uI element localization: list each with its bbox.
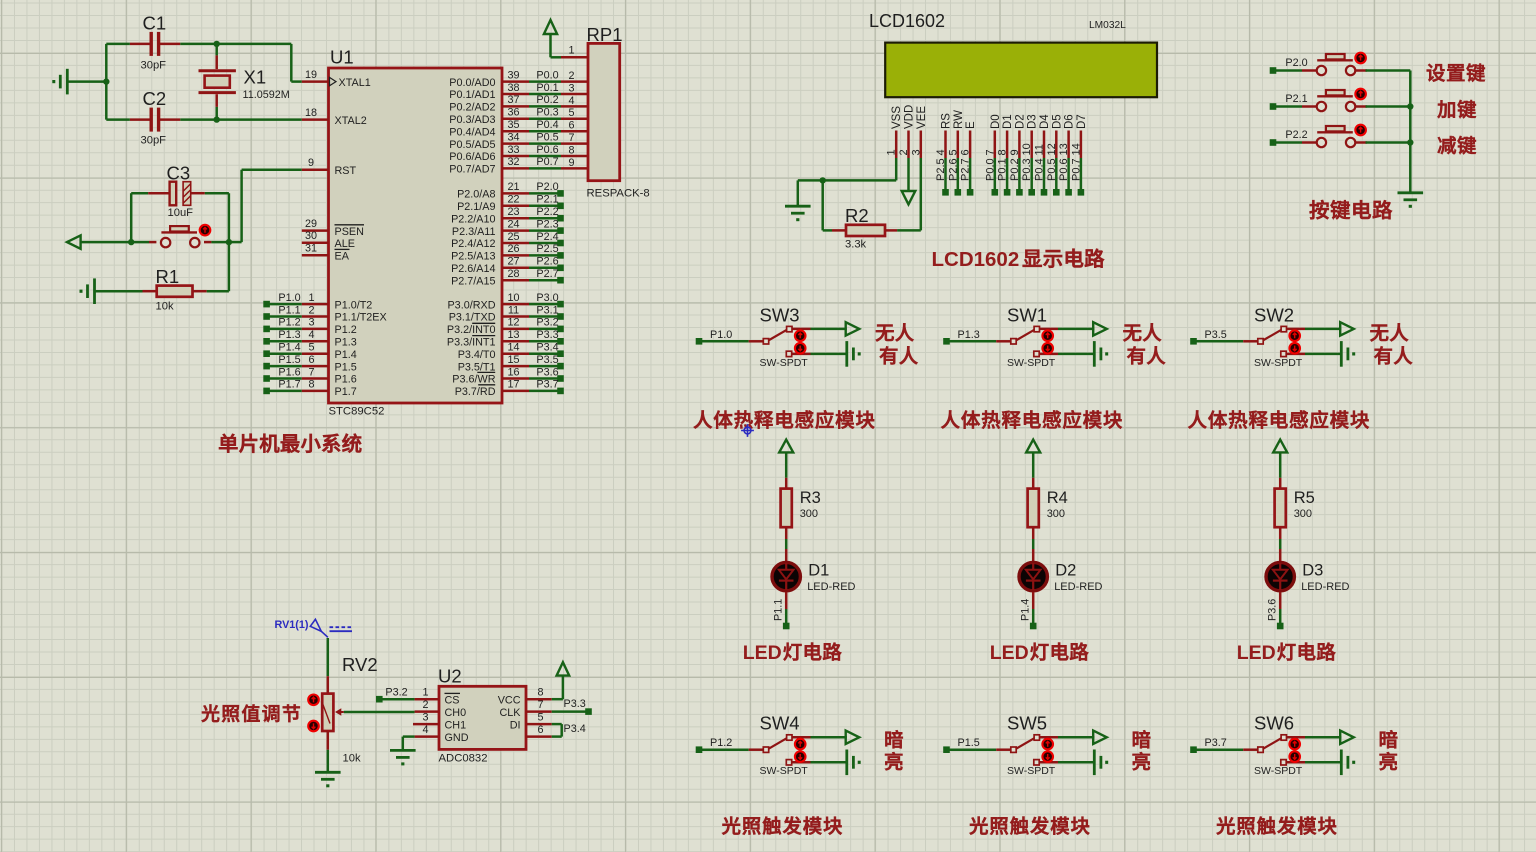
wire keypad bus bbox=[1409, 71, 1412, 192]
pin P1.2 (3) with terminal bbox=[263, 317, 356, 336]
svg-text:6: 6 bbox=[308, 354, 314, 366]
caption 人体热释电感应模块 bbox=[694, 410, 875, 429]
svg-text:29: 29 bbox=[305, 218, 317, 230]
svg-text:39: 39 bbox=[507, 69, 519, 81]
caption 加键 bbox=[1437, 100, 1475, 118]
node junction keypad row2 bbox=[1407, 103, 1413, 109]
svg-text:P2.2/A10: P2.2/A10 bbox=[451, 213, 495, 225]
svg-text:10: 10 bbox=[1021, 143, 1033, 155]
caption 亮 for SW4 bbox=[885, 752, 902, 770]
ground (rotated right) of SW5 bbox=[1094, 750, 1106, 776]
svg-text:D7: D7 bbox=[1076, 114, 1088, 129]
resistor R1 10k bbox=[95, 266, 229, 313]
svg-text:SW1: SW1 bbox=[1007, 304, 1047, 325]
LCD pin 13 D6 net P0.6 bbox=[1058, 114, 1076, 195]
svg-text:P2.0/A8: P2.0/A8 bbox=[457, 189, 495, 201]
svg-text:R3: R3 bbox=[800, 489, 821, 507]
svg-text:LCD1602: LCD1602 bbox=[869, 11, 945, 31]
pin RST (9) bbox=[302, 157, 357, 177]
pin P2.7 (pin 28) with terminal bbox=[502, 268, 564, 284]
svg-text:P0.1: P0.1 bbox=[997, 158, 1009, 181]
svg-text:P0.0: P0.0 bbox=[984, 158, 996, 181]
ground (rotated right) of SW3 bbox=[847, 341, 859, 367]
svg-text:SW-SPDT: SW-SPDT bbox=[1254, 357, 1303, 369]
pin P0.6 (pin 33) wire to RP1 pin 8 bbox=[502, 144, 588, 157]
svg-text:LED: LED bbox=[743, 642, 782, 664]
LCD pin 10 D3 net P0.3 bbox=[1021, 114, 1039, 195]
LED D1 LED-RED bbox=[772, 549, 856, 624]
svg-text:19: 19 bbox=[305, 69, 317, 81]
pin P2.4 (pin 25) with terminal bbox=[502, 231, 564, 247]
svg-text:SW-SPDT: SW-SPDT bbox=[760, 357, 809, 369]
svg-text:P2.6: P2.6 bbox=[536, 256, 558, 268]
svg-text:P0.1: P0.1 bbox=[536, 82, 558, 94]
ground below U2 GND bbox=[390, 750, 416, 764]
svg-text:P3.3: P3.3 bbox=[564, 698, 586, 710]
LED D3 LED-RED bbox=[1266, 549, 1350, 624]
pin P2.0 (pin 21) with terminal bbox=[502, 181, 564, 197]
LCD pin 1 VSS bbox=[886, 106, 904, 158]
svg-text:9: 9 bbox=[308, 157, 314, 169]
svg-text:XTAL1: XTAL1 bbox=[339, 77, 371, 89]
pin P3.2 (pin 12) with terminal bbox=[502, 317, 564, 333]
svg-text:C2: C2 bbox=[143, 88, 167, 109]
svg-text:10k: 10k bbox=[156, 301, 174, 313]
caption 有人 for SW3 bbox=[880, 346, 918, 364]
svg-text:P0.2: P0.2 bbox=[1009, 158, 1021, 181]
svg-text:RS: RS bbox=[941, 113, 953, 129]
arrow terminal 暗 output of SW5 bbox=[1093, 731, 1107, 744]
wire C3 left down to reset row bbox=[130, 193, 133, 242]
svg-text:P1.0/T2: P1.0/T2 bbox=[335, 299, 373, 311]
svg-text:D4: D4 bbox=[1039, 114, 1051, 129]
svg-text:P0.4: P0.4 bbox=[1034, 158, 1046, 181]
pin P0.4 (pin 35) wire to RP1 pin 6 bbox=[502, 119, 588, 132]
wire label RV1(1) blue terminal bbox=[275, 619, 353, 637]
svg-text:ADC0832: ADC0832 bbox=[439, 753, 488, 765]
svg-text:P1.1: P1.1 bbox=[278, 304, 300, 316]
pin P3.1 (pin 11) with terminal bbox=[502, 304, 564, 320]
svg-text:P3.7/RD: P3.7/RD bbox=[455, 386, 496, 398]
caption 暗 for SW5 bbox=[1133, 730, 1150, 748]
svg-text:XTAL2: XTAL2 bbox=[335, 115, 367, 127]
svg-text:RST: RST bbox=[335, 165, 357, 177]
caption 光照触发模块 bbox=[1217, 816, 1337, 834]
pin P2.6 (pin 27) with terminal bbox=[502, 256, 564, 272]
svg-text:P2.0: P2.0 bbox=[1285, 57, 1307, 69]
pin P1.1 (2) with terminal bbox=[263, 304, 386, 323]
svg-text:24: 24 bbox=[507, 218, 519, 230]
arrow terminal 无人 output of SW3 bbox=[846, 322, 860, 335]
caption 无人 for SW3 bbox=[876, 323, 914, 341]
svg-text:10uF: 10uF bbox=[168, 207, 194, 219]
svg-text:P0.3: P0.3 bbox=[536, 107, 558, 119]
svg-text:CLK: CLK bbox=[499, 707, 521, 719]
svg-text:3: 3 bbox=[910, 149, 922, 155]
pin P0.5 (pin 34) wire to RP1 pin 7 bbox=[502, 131, 588, 144]
svg-text:SW3: SW3 bbox=[760, 304, 800, 325]
svg-text:11: 11 bbox=[1034, 144, 1046, 155]
svg-text:P2.1/A9: P2.1/A9 bbox=[457, 201, 495, 213]
svg-text:LED: LED bbox=[990, 642, 1029, 664]
svg-text:D3: D3 bbox=[1027, 114, 1039, 129]
resistor R5 300 bbox=[1275, 478, 1315, 539]
svg-text:8: 8 bbox=[568, 144, 574, 156]
wire R3 to D1 bbox=[785, 539, 788, 549]
pin XTAL2 (18) bbox=[302, 107, 367, 127]
svg-text:P3.2: P3.2 bbox=[536, 317, 558, 329]
svg-text:SW-SPDT: SW-SPDT bbox=[1007, 765, 1056, 777]
svg-text:P2.0: P2.0 bbox=[536, 181, 558, 193]
svg-text:25: 25 bbox=[507, 231, 519, 243]
LCD pin 4 RS net P2.5 bbox=[935, 113, 953, 196]
svg-text:P2.2: P2.2 bbox=[1285, 129, 1307, 141]
svg-text:8: 8 bbox=[537, 687, 543, 699]
svg-text:P0.2/AD2: P0.2/AD2 bbox=[449, 102, 495, 114]
svg-text:P3.0: P3.0 bbox=[536, 292, 558, 304]
potentiometer RV2 10k bbox=[308, 654, 377, 765]
svg-text:LM032L: LM032L bbox=[1089, 20, 1126, 31]
svg-text:P2.7: P2.7 bbox=[960, 158, 972, 181]
pin ALE (30) bbox=[302, 230, 355, 250]
svg-text:P1.4: P1.4 bbox=[1020, 599, 1032, 621]
arrow terminal 暗 output of SW4 bbox=[846, 731, 860, 744]
ground (rotated right) of SW6 bbox=[1341, 750, 1353, 776]
svg-text:P1.1: P1.1 bbox=[773, 599, 785, 621]
svg-text:37: 37 bbox=[507, 94, 519, 106]
svg-text:ALE: ALE bbox=[335, 238, 355, 250]
svg-text:P0.2: P0.2 bbox=[536, 94, 558, 106]
pin U2 CS (1) net P3.2 bbox=[376, 687, 460, 707]
svg-text:P0.6: P0.6 bbox=[536, 144, 558, 156]
pin P2.2 (pin 23) with terminal bbox=[502, 206, 564, 222]
svg-text:1: 1 bbox=[308, 292, 314, 304]
svg-text:LED-RED: LED-RED bbox=[807, 581, 855, 593]
pin P1.5 (6) with terminal bbox=[263, 354, 356, 373]
svg-text:10k: 10k bbox=[343, 753, 361, 765]
svg-text:LCD1602: LCD1602 bbox=[932, 248, 1020, 271]
caption 单片机最小系统 bbox=[219, 434, 361, 453]
node junction C1 / X1 top bbox=[214, 41, 220, 47]
wire LCD VSS to ground rail bbox=[798, 158, 896, 180]
svg-text:RV2: RV2 bbox=[342, 654, 378, 675]
pin P1.7 (8) with terminal bbox=[263, 379, 356, 398]
svg-text:7: 7 bbox=[568, 132, 574, 144]
svg-text:P1.5: P1.5 bbox=[278, 354, 300, 366]
caption 光照值调节 bbox=[202, 704, 300, 722]
caption 按键电路 bbox=[1310, 200, 1393, 219]
svg-text:3: 3 bbox=[568, 82, 574, 94]
svg-text:DI: DI bbox=[510, 719, 521, 731]
node junction C2 / X1 bottom bbox=[214, 116, 220, 122]
ground (rotated left) for crystal caps bbox=[54, 69, 68, 95]
ground (rotated right) of SW4 bbox=[847, 750, 859, 776]
LCD pin 2 VDD bbox=[898, 105, 916, 158]
svg-text:P0.7: P0.7 bbox=[1070, 158, 1082, 181]
svg-text:P3.6: P3.6 bbox=[1267, 599, 1279, 621]
pin P0.7 (pin 32) wire to RP1 pin 9 bbox=[502, 156, 588, 169]
push button P2.2 bbox=[1270, 125, 1411, 148]
arrow terminal 无人 output of SW2 bbox=[1340, 322, 1354, 335]
pin P0.0 (pin 39) wire to RP1 pin 2 bbox=[502, 69, 588, 82]
svg-text:P1.5: P1.5 bbox=[335, 361, 357, 373]
svg-text:P3.6/WR: P3.6/WR bbox=[452, 374, 495, 386]
power arrow above R5 bbox=[1273, 440, 1287, 478]
svg-text:3.3k: 3.3k bbox=[845, 239, 867, 251]
pin P2.1 (pin 22) with terminal bbox=[502, 194, 564, 210]
wire C1 to XTAL1 bbox=[217, 44, 302, 82]
arrow terminal 无人 output of SW1 bbox=[1093, 322, 1107, 335]
caption 人体热释电感应模块 bbox=[941, 410, 1122, 429]
svg-text:P2.2: P2.2 bbox=[536, 206, 558, 218]
svg-text:P0.4/AD4: P0.4/AD4 bbox=[449, 126, 495, 138]
svg-text:RW: RW bbox=[953, 110, 965, 129]
svg-text:P3.2: P3.2 bbox=[385, 687, 407, 699]
U1 right pin names bbox=[447, 77, 496, 398]
pin P3.7 (pin 17) with terminal bbox=[502, 379, 564, 395]
svg-text:P3.4: P3.4 bbox=[536, 342, 558, 354]
svg-text:VDD: VDD bbox=[904, 105, 916, 129]
svg-text:28: 28 bbox=[507, 268, 519, 280]
svg-text:4: 4 bbox=[935, 149, 947, 155]
caption 亮 for SW5 bbox=[1133, 752, 1150, 770]
svg-text:P1.6: P1.6 bbox=[335, 374, 357, 386]
svg-text:D6: D6 bbox=[1064, 114, 1076, 129]
LED D2 LED-RED bbox=[1019, 549, 1103, 624]
resistor R4 300 bbox=[1028, 478, 1068, 539]
svg-text:P1.2: P1.2 bbox=[710, 737, 732, 749]
pin P2.5 (pin 26) with terminal bbox=[502, 243, 564, 259]
resistor R3 300 bbox=[781, 478, 821, 539]
caption 减键 bbox=[1438, 136, 1476, 154]
resistor R2 3.3k bbox=[823, 205, 897, 251]
svg-text:P1.7: P1.7 bbox=[278, 379, 300, 391]
svg-text:8: 8 bbox=[308, 379, 314, 391]
wire C2 to XTAL2 bbox=[217, 118, 302, 121]
pin P0.1 (pin 38) wire to RP1 pin 3 bbox=[502, 82, 588, 95]
LCD pin 6 E net P2.7 bbox=[960, 121, 978, 196]
pin P3.6 (pin 16) with terminal bbox=[502, 366, 564, 382]
svg-text:P3.1: P3.1 bbox=[536, 304, 558, 316]
svg-text:GND: GND bbox=[445, 732, 469, 744]
wire R4 to D2 bbox=[1032, 539, 1035, 549]
svg-text:9: 9 bbox=[1009, 149, 1021, 155]
svg-text:D2: D2 bbox=[1055, 562, 1076, 580]
terminal P1.4 below D2 bbox=[1020, 599, 1037, 630]
svg-text:3: 3 bbox=[308, 317, 314, 329]
svg-text:P0.6/AD6: P0.6/AD6 bbox=[449, 151, 495, 163]
svg-text:P3.3: P3.3 bbox=[536, 329, 558, 341]
LCD pin 9 D2 net P0.2 bbox=[1009, 114, 1027, 195]
svg-text:P3.3/INT1: P3.3/INT1 bbox=[447, 337, 496, 349]
LCD pin 11 D4 net P0.4 bbox=[1034, 114, 1052, 196]
svg-text:12: 12 bbox=[1046, 143, 1058, 155]
pin P0.2 (pin 37) wire to RP1 pin 4 bbox=[502, 94, 588, 107]
caption 有人 for SW2 bbox=[1374, 346, 1412, 364]
svg-text:35: 35 bbox=[507, 119, 519, 131]
svg-text:P3.2/INT0: P3.2/INT0 bbox=[447, 324, 496, 336]
LCD pin 14 D7 net P0.7 bbox=[1070, 114, 1088, 195]
node junction left of caps bbox=[103, 78, 109, 84]
svg-text:21: 21 bbox=[507, 181, 519, 193]
svg-text:P2.1: P2.1 bbox=[536, 194, 558, 206]
svg-text:P0.0/AD0: P0.0/AD0 bbox=[449, 77, 495, 89]
power arrow above RP1 bbox=[544, 20, 561, 57]
svg-text:P3.4/T0: P3.4/T0 bbox=[458, 349, 496, 361]
switch SW6 SW-SPDT net P3.7 bbox=[1190, 713, 1341, 778]
svg-text:14: 14 bbox=[1070, 143, 1082, 155]
display LCD1602 LM032L bbox=[869, 11, 1157, 97]
svg-text:P1.4: P1.4 bbox=[278, 342, 300, 354]
svg-text:SW6: SW6 bbox=[1254, 713, 1294, 734]
pin XTAL1 (19) bbox=[302, 69, 371, 89]
svg-text:P3.5: P3.5 bbox=[536, 354, 558, 366]
svg-text:P2.1: P2.1 bbox=[1285, 93, 1307, 105]
adc U2 ADC0832 body bbox=[438, 666, 526, 765]
node junction reset left bbox=[128, 239, 134, 245]
switch SW1 SW-SPDT net P1.3 bbox=[943, 304, 1094, 369]
pin EA (31) bbox=[302, 243, 350, 263]
ground (rotated right) of SW1 bbox=[1094, 341, 1106, 367]
caption LED灯电路 bbox=[1237, 642, 1336, 664]
pin U2 VCC (8) to power arrow bbox=[498, 662, 569, 706]
svg-text:P1.3: P1.3 bbox=[958, 329, 980, 341]
svg-text:27: 27 bbox=[507, 256, 519, 268]
node junction keypad row3 bbox=[1407, 139, 1413, 145]
svg-text:1: 1 bbox=[886, 149, 898, 155]
svg-text:R1: R1 bbox=[156, 266, 180, 287]
svg-text:17: 17 bbox=[507, 379, 519, 391]
svg-text:P0.0: P0.0 bbox=[536, 69, 558, 81]
svg-text:33: 33 bbox=[507, 144, 519, 156]
svg-text:R2: R2 bbox=[845, 205, 869, 226]
ground (rotated right) of SW2 bbox=[1341, 341, 1353, 367]
svg-text:5: 5 bbox=[947, 149, 959, 155]
svg-text:P3.0/RXD: P3.0/RXD bbox=[447, 299, 495, 311]
capacitor C3 10uF polarized bbox=[131, 163, 229, 220]
svg-text:SW2: SW2 bbox=[1254, 304, 1294, 325]
caption 人体热释电感应模块 bbox=[1188, 410, 1369, 429]
svg-text:36: 36 bbox=[507, 107, 519, 119]
svg-text:12: 12 bbox=[507, 317, 519, 329]
pin U2 CH0 (2) from RV2 wiper bbox=[344, 699, 466, 719]
pin U2 DI (5) bbox=[510, 712, 562, 737]
svg-text:32: 32 bbox=[507, 156, 519, 168]
svg-text:CH1: CH1 bbox=[445, 719, 467, 731]
svg-text:P2.5: P2.5 bbox=[935, 158, 947, 181]
svg-text:P0.7/AD7: P0.7/AD7 bbox=[449, 164, 495, 176]
node junction VSS rail bbox=[820, 177, 826, 183]
svg-text:P2.6: P2.6 bbox=[947, 158, 959, 181]
svg-text:6: 6 bbox=[960, 149, 972, 155]
svg-text:C3: C3 bbox=[167, 163, 191, 184]
svg-text:13: 13 bbox=[507, 329, 519, 341]
svg-text:38: 38 bbox=[507, 82, 519, 94]
wire reset row to RST pin bbox=[229, 170, 302, 242]
svg-text:P0.5/AD5: P0.5/AD5 bbox=[449, 139, 495, 151]
caption LED灯电路 bbox=[743, 642, 842, 664]
svg-text:7: 7 bbox=[308, 366, 314, 378]
wire VEE down to R2 bbox=[897, 158, 921, 230]
wire vertical between C1 and C2 bbox=[105, 44, 108, 120]
svg-text:8: 8 bbox=[997, 149, 1009, 155]
switch SW4 SW-SPDT net P1.2 bbox=[696, 713, 847, 778]
svg-text:P0.5: P0.5 bbox=[536, 131, 558, 143]
pin P0.3 (pin 36) wire to RP1 pin 5 bbox=[502, 107, 588, 120]
LCD pin 7 D0 net P0.0 bbox=[984, 114, 1002, 195]
svg-text:2: 2 bbox=[422, 699, 428, 711]
pin P3.4 (pin 14) with terminal bbox=[502, 342, 564, 358]
LCD pin 8 D1 net P0.1 bbox=[997, 114, 1015, 195]
svg-text:X1: X1 bbox=[244, 67, 267, 88]
svg-text:R5: R5 bbox=[1294, 489, 1315, 507]
svg-text:P2.5/A13: P2.5/A13 bbox=[451, 251, 495, 263]
pin P1.0 (1) with terminal bbox=[263, 292, 372, 311]
caption 设置键 bbox=[1427, 63, 1485, 81]
svg-text:31: 31 bbox=[305, 243, 317, 255]
svg-text:11.0592M: 11.0592M bbox=[243, 89, 290, 101]
svg-text:P2.3: P2.3 bbox=[536, 218, 558, 230]
caption 光照触发模块 bbox=[970, 816, 1090, 834]
pin P1.6 (7) with terminal bbox=[263, 366, 356, 385]
svg-text:3: 3 bbox=[422, 712, 428, 724]
pin U2 DO (6) net P3.4 bbox=[526, 723, 586, 737]
svg-text:CS: CS bbox=[445, 694, 460, 706]
svg-text:16: 16 bbox=[507, 366, 519, 378]
svg-text:2: 2 bbox=[568, 70, 574, 82]
svg-text:300: 300 bbox=[800, 508, 818, 520]
capacitor C2 bbox=[106, 88, 216, 147]
svg-text:LED: LED bbox=[1237, 642, 1276, 664]
svg-text:RV1(1): RV1(1) bbox=[275, 619, 309, 631]
pin PSEN (29) bbox=[302, 218, 364, 238]
switch SW3 SW-SPDT net P1.0 bbox=[696, 304, 847, 369]
wire C3 right down to R1 row bbox=[228, 193, 231, 291]
svg-text:P2.4: P2.4 bbox=[536, 231, 558, 243]
svg-text:P1.0: P1.0 bbox=[278, 292, 300, 304]
svg-text:5: 5 bbox=[308, 342, 314, 354]
svg-text:P0.4: P0.4 bbox=[536, 119, 558, 131]
svg-text:P0.5: P0.5 bbox=[1046, 158, 1058, 181]
caption 亮 for SW6 bbox=[1380, 752, 1397, 770]
pin U2 GND (4) to ground bbox=[403, 724, 469, 750]
svg-text:30pF: 30pF bbox=[141, 135, 167, 147]
caption 无人 for SW1 bbox=[1123, 323, 1161, 341]
svg-text:P0.1/AD1: P0.1/AD1 bbox=[449, 89, 495, 101]
svg-text:P0.3/AD3: P0.3/AD3 bbox=[449, 114, 495, 126]
svg-text:P3.7: P3.7 bbox=[1205, 737, 1227, 749]
switch SW5 SW-SPDT net P1.5 bbox=[943, 713, 1094, 778]
caption LED灯电路 bbox=[990, 642, 1089, 664]
svg-text:6: 6 bbox=[568, 120, 574, 132]
terminal P1.1 below D1 bbox=[773, 599, 790, 630]
capacitor C1 bbox=[106, 13, 216, 72]
svg-text:7: 7 bbox=[537, 699, 543, 711]
svg-text:CH0: CH0 bbox=[445, 707, 467, 719]
svg-text:4: 4 bbox=[422, 724, 428, 736]
svg-text:P1.3: P1.3 bbox=[335, 337, 357, 349]
svg-text:P3.5/T1: P3.5/T1 bbox=[458, 361, 496, 373]
svg-text:P3.7: P3.7 bbox=[536, 379, 558, 391]
svg-text:SW-SPDT: SW-SPDT bbox=[1254, 765, 1303, 777]
ground below RV2 bbox=[315, 750, 341, 786]
svg-text:D2: D2 bbox=[1014, 114, 1026, 129]
svg-text:VEE: VEE bbox=[916, 106, 928, 129]
LCD pin 5 RW net P2.6 bbox=[947, 110, 965, 196]
svg-text:300: 300 bbox=[1047, 508, 1065, 520]
pin P3.3 (pin 13) with terminal bbox=[502, 329, 564, 345]
svg-text:P1.6: P1.6 bbox=[278, 366, 300, 378]
